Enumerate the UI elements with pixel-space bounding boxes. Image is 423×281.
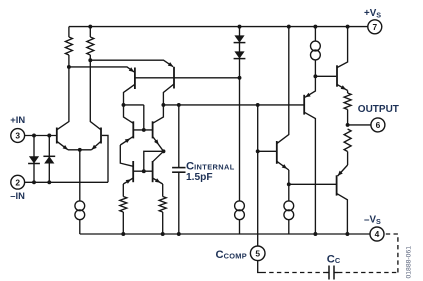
resistor R4 (mirror degeneration right) [159,197,166,213]
svg-text:3: 3 [15,131,20,141]
transistor Q10 emitter with arrow [305,76,315,97]
node lower base bus [142,169,146,173]
node output [346,123,350,127]
wire: riser to Q2 base [102,135,108,182]
transistor Q2 (input NPN, right) base bar [100,128,102,144]
dashed wire: to pin 4 [384,233,398,235]
transistor Q7 emitter with arrow [123,178,133,184]
wire: emitter bus of input pair [68,149,92,151]
pin 2 (-IN) [11,175,25,189]
transistor Q11 collector [337,27,348,68]
node mirror output (Q4/Q6 collectors) [161,103,165,107]
wire: R2 bottom to Q4 emitter [90,60,173,66]
node top rail / Q9 collector [287,25,291,29]
svg-text:OUTPUT: OUTPUT [358,104,399,115]
transistor Q6 collector [153,105,164,123]
wire: node down to I4 [288,184,290,201]
svg-text:1.5pF: 1.5pF [186,172,213,183]
transistor Q4 (PNP cascode B) emitter arrow [168,62,173,67]
transistor Q7 (mirror lower-left) base bar [132,161,134,182]
wire: pin2 line to riser [25,181,108,183]
resistor R5 (output top) [347,91,349,94]
node pin2/D1 [32,180,36,184]
wire: plates stubs [326,272,329,274]
transistor Q10 collector [304,112,315,234]
svg-text:–IN: –IN [10,190,25,201]
wire: Q5 emitter to Q7 collector [120,145,133,166]
wire: high-Z rail to Q10 base [163,104,304,106]
dashed wire: pin5 to CC [262,272,327,274]
svg-text:–VS: –VS [364,214,381,226]
wire: mirror input rail to stair [124,104,144,106]
wire: stair down to upper base bus [143,105,145,130]
wire: CINTERNAL to bottom rail [178,172,180,234]
node mirror input (Q3 collector / Q5 collector) [122,103,126,107]
node Q9 emitter / I4 / Q12 base [287,182,291,186]
node bias rail / diode string [238,76,242,80]
node Q6 emitter / Q8 collector / lower bus tap [162,149,166,153]
pin 7 (+VS) [368,20,382,34]
wire: I1 to Q10 emitter node [314,60,316,76]
resistor R3 (mirror degeneration left) [120,197,127,213]
wire: Q12 base line [289,183,337,185]
svg-text:5: 5 [255,248,260,258]
svg-text:CINTERNAL: CINTERNAL [186,160,235,172]
pin 3 (+IN) [11,129,25,143]
transistor Q9 collector [277,27,289,144]
node top rail / R2 [88,25,92,29]
transistor Q5 collector [124,105,134,123]
node input pair tail [78,148,82,152]
wire: output node to pin 6 [348,124,371,126]
wire: I4 to bottom rail [288,220,290,234]
transistor Q1 emitter with arrow [57,141,68,150]
diode D1 (anode +IN, cathode -IN) [29,156,39,163]
transistor Q10 (2nd stage PNP) base bar [303,95,305,115]
node R4 / bottom rail [161,232,165,236]
resistor R1 (left load) [68,27,70,37]
transistor Q3 base bar [134,68,136,90]
current source I1 [311,41,321,51]
wire: rail to I1 [314,27,316,42]
diode D2 (anode -IN, cathode +IN) [44,156,54,163]
wire: tail down to current source I2 [79,150,81,201]
node I1 / Q10 emitter / Q11 base [313,74,317,78]
svg-text:CC: CC [327,253,341,265]
transistor Q3 (PNP cascode A) emitter arrow [129,67,134,72]
node high-Z rail / CCOMP drop [256,103,260,107]
transistor Q8 (mirror lower-right) base bar [152,161,154,182]
resistor R6 (output bottom) [344,129,351,152]
dashed wire: corner up to -VS level [397,234,399,273]
transistor Q6 (mirror upper-right) base bar [152,121,154,138]
wire: I3 to bottom rail [239,220,241,234]
wire: PNP base bias rail to diode string [135,77,240,79]
transistor Q11 emitter with arrow [337,84,348,90]
node upper base bus [142,128,146,132]
node top rail / diode string [238,25,242,29]
pin 6 (OUTPUT) [371,118,385,132]
node pin3/D2 [47,134,51,138]
transistor Q12 (output PNP) emitter with arrow [338,165,348,176]
lower base bus of mirror [133,170,152,172]
wire: D4 to bias node [239,70,241,78]
node R2 bottom junction [88,58,92,62]
capacitor CC plates [328,266,330,280]
bottom rail (-VS bus) [80,233,370,235]
transistor Q5 (mirror upper-left) base bar [132,121,134,138]
svg-text:2: 2 [15,177,20,187]
transistor Q12 collector [337,193,348,234]
transistor Q1 (input NPN, left) base bar [56,128,58,144]
transistor Q3 collector [124,84,135,105]
transistor Q8 emitter with arrow [153,178,163,184]
pin 4 (-VS) [370,227,384,241]
transistor Q2 emitter with arrow [92,141,102,150]
svg-text:7: 7 [372,22,377,32]
transistor Q9 emitter with arrow [277,161,289,170]
diode D4 (bias, lower) [234,51,244,58]
wire: I2 to bottom rail corner [79,220,81,234]
wire: bias node down to I3 [239,78,241,201]
svg-text:+VS: +VS [364,8,381,20]
dashed wire: CC to corner [338,272,398,274]
wire: CCOMP drop (crosses bottom rail) [257,105,259,246]
node pin3/D1 [32,134,36,138]
svg-text:+IN: +IN [10,114,25,125]
capacitor C_INTERNAL plates [172,167,185,169]
wire: Q11 base from I1 node [315,75,336,77]
svg-text:4: 4 [375,229,380,239]
transistor Q5 emitter with arrow [120,136,133,145]
wire: down to CINTERNAL [178,105,180,168]
transistor Q1 collector [57,67,69,130]
wire: lower bus stair [144,151,164,171]
pin 5 (CCOMP) [250,246,265,261]
wire: +VS top rail [69,26,368,28]
svg-text:CCOMP: CCOMP [216,249,247,261]
wire: Q9 emitter down to node [288,170,290,184]
wire: pin3 to Q1 base [25,135,56,137]
transistor Q4 collector [163,84,174,105]
node Q12 collector / bottom rail [345,232,349,236]
transistor Q4 base bar [173,67,175,89]
current source I3 [235,201,245,211]
node CINTERNAL bottom / rail [177,232,181,236]
node R1 bottom junction [67,65,71,69]
wire: node to Q8 collector [153,151,164,162]
node CINTERNAL top [177,103,181,107]
node top rail / I1 [313,25,317,29]
node R3 / bottom rail [121,232,125,236]
node pin2/D2 [47,180,51,184]
resistor R2 (right load) [89,27,91,37]
transistor Q6 emitter with arrow [153,136,164,151]
wire: R1 bottom to Q3 emitter [69,67,134,72]
wire: Q7 emitter to R3 [122,184,124,197]
transistor Q9 (2nd stage NPN) base bar [276,141,278,164]
transistor Q2 collector [90,60,101,130]
upper base bus of mirror [133,129,152,131]
wire: Q8 emitter to R4 [162,184,164,197]
node Q9 base tap [256,149,260,153]
svg-text:01888-061: 01888-061 [405,246,412,279]
node top rail / Q11 collector [346,25,350,29]
transistor Q11 (output NPN) base bar [336,65,338,86]
transistor Q12 base bar [336,175,338,195]
diode D3 (bias, upper) [234,35,244,42]
current source I2 (tail) [75,201,85,211]
svg-text:6: 6 [376,120,381,130]
node Q10 collector / bottom rail [313,232,317,236]
wire: Q9 base [258,150,276,152]
current source I4 [284,201,294,211]
wire: pin5 stub down [258,261,262,273]
